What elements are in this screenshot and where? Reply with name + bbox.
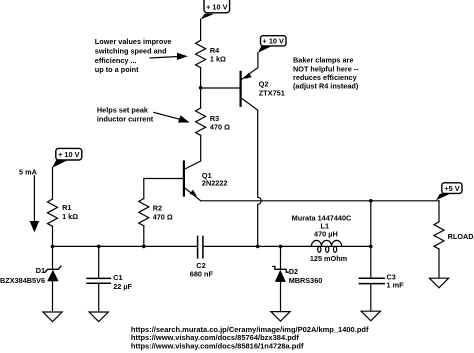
svg-text:inductor current: inductor current: [97, 115, 154, 124]
node R4/R3/Q2 junction: [199, 86, 203, 90]
output line y=200.8: [201, 200, 439, 202]
svg-text:up to a point: up to a point: [95, 65, 139, 74]
svg-text:22 µF: 22 µF: [113, 282, 132, 291]
power port +5V P4: [436, 183, 462, 200]
svg-text:+ 10 V: + 10 V: [58, 150, 79, 159]
wire R1 to rail: [52, 226, 54, 246]
capacitor C2: [190, 236, 214, 278]
node R1/D1/rail: [51, 245, 55, 249]
svg-text:R1: R1: [62, 203, 71, 212]
svg-text:1 mF: 1 mF: [387, 281, 405, 290]
svg-text:470 Ω: 470 Ω: [210, 123, 230, 132]
svg-text:(adjust R4 instead): (adjust R4 instead): [293, 82, 359, 91]
svg-text:+ 10 V: + 10 V: [206, 3, 227, 12]
wire R2 to rail: [143, 226, 145, 247]
wire RLOAD to ground: [438, 249, 440, 278]
diode D2 schottky: [273, 246, 322, 311]
transistor Q2: [241, 53, 285, 110]
svg-text:ZTX751: ZTX751: [259, 89, 285, 98]
wire P1 to R4: [200, 19, 202, 40]
feedback rail left of C2: [53, 245, 198, 247]
resistor R1: [48, 199, 79, 226]
wire junction to Q2 base: [201, 87, 240, 89]
wire R3 to Q1 collector: [185, 135, 201, 169]
svg-text:switching speed and: switching speed and: [95, 47, 167, 56]
svg-text:Helps set peak: Helps set peak: [97, 106, 149, 115]
wire Q2 collector down with hop over output line: [258, 110, 262, 246]
svg-text:1 kΩ: 1 kΩ: [210, 55, 226, 64]
ground under C3: [361, 311, 380, 321]
node switch-node/rail: [256, 245, 260, 249]
svg-text:BZX384B5V6: BZX384B5V6: [0, 276, 45, 285]
svg-text:2N2222: 2N2222: [202, 179, 228, 188]
svg-text:+ 10 V: + 10 V: [263, 37, 284, 46]
wire output to RLOAD: [438, 201, 440, 222]
annotation: lower values: [95, 37, 172, 74]
wire Q1 base to R2: [144, 179, 183, 199]
node R2/rail: [142, 245, 146, 249]
annotation: baker clamps: [293, 56, 359, 91]
node C1/rail: [97, 245, 101, 249]
power port +10V P2: [258, 36, 286, 53]
wire output down to L1 junction: [370, 201, 372, 247]
svg-text:Q2: Q2: [259, 79, 269, 88]
transistor Q1: [184, 162, 228, 201]
power port +10V P1: [201, 0, 230, 20]
annotation: helps set peak: [97, 106, 154, 124]
ground under RLOAD: [429, 278, 448, 288]
ground under D1: [43, 312, 62, 322]
current arrow 5 mA: [19, 168, 39, 233]
resistor R4: [196, 40, 226, 67]
svg-text:RLOAD: RLOAD: [448, 232, 474, 241]
node D2/rail: [279, 245, 283, 249]
resistor RLOAD: [434, 222, 474, 249]
wire P3 to R1: [52, 168, 54, 199]
svg-text:125 mOhm: 125 mOhm: [310, 254, 348, 263]
url text: [131, 325, 369, 350]
ground under D2: [271, 312, 290, 322]
diode D1 zener: [0, 246, 61, 312]
power port +10V P3: [52, 148, 82, 167]
svg-text:470 µH: 470 µH: [314, 229, 338, 238]
capacitor C3: [359, 246, 404, 311]
node output/C3: [369, 199, 373, 203]
svg-text:1 kΩ: 1 kΩ: [62, 212, 78, 221]
svg-text:D1: D1: [36, 266, 45, 275]
svg-text:Lower values improve: Lower values improve: [95, 37, 172, 46]
inductor L1: [292, 214, 352, 263]
wire R4 to R3: [200, 68, 202, 108]
ground under C1: [89, 312, 108, 322]
svg-text:R2: R2: [153, 203, 162, 212]
svg-text:470 Ω: 470 Ω: [153, 212, 173, 221]
svg-text:efficiency ...: efficiency ...: [95, 56, 137, 65]
annotation arrow to R3: [154, 112, 190, 122]
resistor R3: [196, 108, 231, 135]
feedback rail right of C2: [203, 245, 370, 247]
annotation arrow to R4: [150, 53, 188, 60]
svg-text:https://www.vishay.com/docs/85: https://www.vishay.com/docs/85816/1n4728…: [131, 341, 304, 350]
capacitor C1: [87, 246, 133, 312]
svg-text:MBRS360: MBRS360: [289, 276, 323, 285]
svg-text:Baker clamps are: Baker clamps are: [293, 56, 353, 65]
svg-text:D2: D2: [289, 267, 298, 276]
svg-text:+5 V: +5 V: [444, 184, 459, 193]
node L1/C3 junction: [369, 245, 373, 249]
svg-text:680 nF: 680 nF: [190, 269, 214, 278]
resistor R2: [139, 199, 173, 226]
svg-text:C1: C1: [113, 273, 122, 282]
